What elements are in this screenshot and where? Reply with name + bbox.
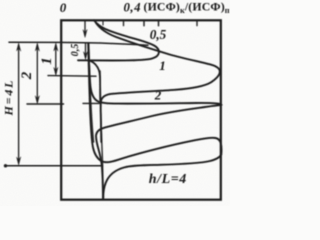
level segment for 2 inside plot (83, 102, 100, 104)
curve h/L=2 (89, 43, 222, 199)
axis tick at 197 (196, 21, 198, 26)
wire: mid channel bundle (100, 71, 103, 199)
axis tick 0,4 (143, 21, 145, 26)
axis tick 0,2 (102, 21, 104, 25)
axis tick 0,3 (123, 21, 125, 26)
axis tick at 158 (158, 21, 160, 26)
level tick for 2 (27, 103, 64, 105)
level line H=4L with dot (6, 165, 103, 167)
level tick for 1 (48, 75, 96, 78)
paper texture (0, 0, 230, 206)
dimension arrow 0,5 upper (83, 21, 87, 37)
dot at level line (4, 164, 7, 167)
dimension arrow H=4L (17, 43, 21, 165)
curve h/L=1 (96, 23, 220, 142)
dimension arrow 1 (54, 43, 58, 75)
curve 0,5 tail into channel (91, 61, 101, 100)
curve h/L=4 (88, 43, 221, 199)
dimension arrow 2 (35, 43, 39, 104)
plot box frame (61, 20, 221, 199)
dimension arrow 0,5 lower (83, 44, 87, 60)
wire: left channel bundle (89, 44, 94, 143)
curve h/L=0,5 (78, 20, 159, 60)
reference level line at y=42 (9, 42, 148, 45)
